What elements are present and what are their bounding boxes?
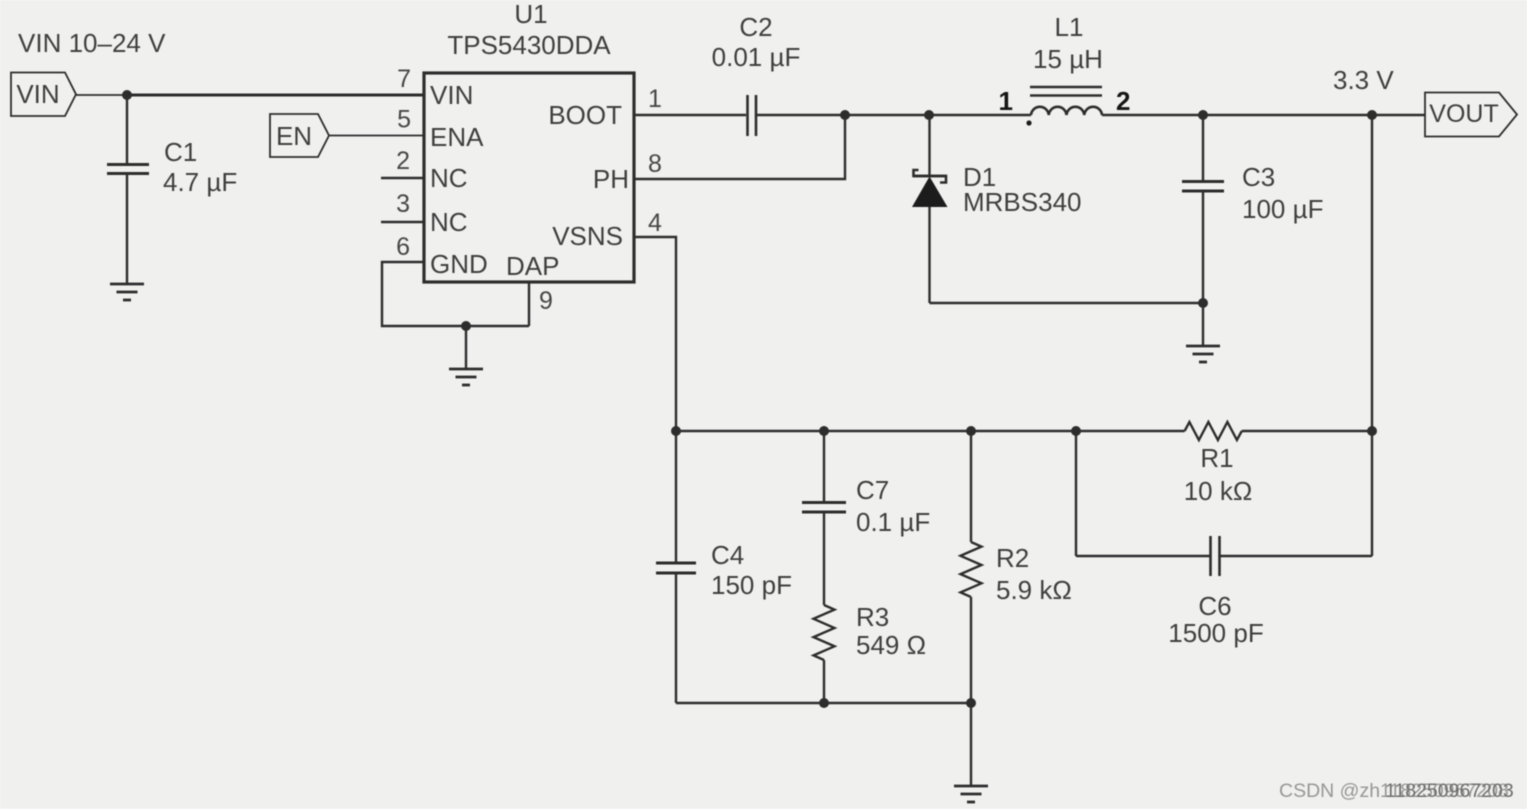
pin stub NC pin 3 <box>381 221 424 223</box>
svg-text:VIN 10–24 V: VIN 10–24 V <box>18 28 166 58</box>
wire C3 to ground <box>1202 303 1204 346</box>
capacitor C6 1500 pF <box>1076 431 1372 648</box>
pin stub NC pin 2 <box>381 177 424 179</box>
svg-text:C3: C3 <box>1242 162 1275 192</box>
svg-text:1: 1 <box>999 86 1013 116</box>
svg-text:C7: C7 <box>856 475 889 505</box>
watermark overlay <box>1385 780 1514 803</box>
node L1/C3 junction <box>1198 110 1208 120</box>
wire GND pin 6 loop <box>382 262 529 326</box>
node VOUT junction <box>1367 110 1377 120</box>
inductor L1 15 uH <box>999 12 1131 126</box>
wire C3 node to VOUT node <box>1203 114 1372 116</box>
svg-text:MRBS340: MRBS340 <box>963 187 1082 217</box>
ground (below U1) <box>449 369 483 385</box>
svg-text:4.7 µF: 4.7 µF <box>163 167 237 197</box>
svg-text:C6: C6 <box>1198 591 1231 621</box>
node PH/D1 junction <box>924 110 934 120</box>
svg-text:L1: L1 <box>1055 12 1084 42</box>
svg-text:VIN: VIN <box>430 80 473 110</box>
resistor R1 10 kOhm <box>1184 422 1253 506</box>
IC U1 TPS5430DDA <box>424 0 634 282</box>
node C3 bottom junction <box>1198 298 1208 308</box>
node GND/DAP junction <box>461 321 471 331</box>
svg-text:5: 5 <box>397 106 411 134</box>
wire bottom feedback bus <box>676 702 971 704</box>
svg-text:GND: GND <box>430 249 488 279</box>
wire EN to pin 5 <box>329 135 424 137</box>
svg-text:PH: PH <box>593 164 629 194</box>
diode D1 MRBS340 <box>912 115 1082 303</box>
svg-text:3.3 V: 3.3 V <box>1333 65 1394 95</box>
svg-text:150 pF: 150 pF <box>711 570 792 600</box>
node bus/feedback junction <box>1367 426 1377 436</box>
capacitor C3 <box>1182 115 1323 303</box>
wire L1 to C3 node <box>1102 114 1203 116</box>
svg-text:2: 2 <box>1116 86 1130 116</box>
svg-text:BOOT: BOOT <box>548 100 622 130</box>
svg-text:3: 3 <box>396 190 410 218</box>
svg-text:VOUT: VOUT <box>1429 100 1498 128</box>
svg-text:R1: R1 <box>1200 443 1233 473</box>
wire C2 to node <box>757 114 845 116</box>
node bus/C6 left junction <box>1071 426 1081 436</box>
svg-text:7: 7 <box>397 65 411 93</box>
svg-text:0.1 µF: 0.1 µF <box>856 507 930 537</box>
svg-text:TPS5430DDA: TPS5430DDA <box>447 30 611 60</box>
watermark CSDN <box>1279 780 1509 803</box>
svg-text:1500 pF: 1500 pF <box>1168 618 1263 648</box>
svg-text:6: 6 <box>396 233 410 261</box>
node bus/C4 junction <box>671 426 681 436</box>
svg-text:15 µH: 15 µH <box>1033 44 1103 74</box>
svg-text:8: 8 <box>648 150 662 178</box>
wire top bus right of R1 <box>1242 430 1372 432</box>
wire VSNS pin 4 <box>634 237 676 431</box>
wire D1 anode to C3 bottom <box>930 302 1204 304</box>
resistor R3 549 Ohm <box>814 602 927 703</box>
resistor R2 5.9 kOhm <box>961 431 1072 703</box>
svg-text:C4: C4 <box>711 540 744 570</box>
svg-text:5.9 kΩ: 5.9 kΩ <box>996 575 1072 605</box>
port VOUT <box>1425 93 1517 137</box>
svg-text:EN: EN <box>276 121 312 151</box>
svg-text:C2: C2 <box>739 12 772 42</box>
wire R2 node to ground <box>970 703 972 786</box>
wire feedback top bus <box>676 430 1185 432</box>
svg-text:9: 9 <box>539 287 553 315</box>
node BOOT/PH junction <box>840 110 850 120</box>
svg-text:10 kΩ: 10 kΩ <box>1184 476 1253 506</box>
wire VIN tag to junction <box>76 94 127 96</box>
svg-text:U1: U1 <box>514 0 547 29</box>
wire junction to ground <box>465 326 467 369</box>
wire node to VOUT tag <box>1372 114 1425 116</box>
svg-text:C1: C1 <box>164 137 197 167</box>
node bottom bus/R2 junction <box>966 698 976 708</box>
node bus/C7 junction <box>819 426 829 436</box>
svg-text:2: 2 <box>396 147 410 175</box>
svg-text:NC: NC <box>430 163 468 193</box>
capacitor C4 150 pF <box>656 431 792 703</box>
svg-text:R3: R3 <box>856 602 889 632</box>
svg-text:VIN: VIN <box>16 79 59 109</box>
capacitor C1 <box>107 95 237 284</box>
ground (bottom) <box>954 786 988 802</box>
node bottom bus/R3 junction <box>819 698 829 708</box>
port VIN <box>11 73 76 117</box>
svg-text:NC: NC <box>430 207 468 237</box>
wire feedback riser from VOUT node <box>1371 115 1373 431</box>
svg-text:0.01 µF: 0.01 µF <box>712 42 801 72</box>
ground (below C1) <box>110 284 144 300</box>
port EN <box>270 114 329 157</box>
node bus/R2 junction <box>966 426 976 436</box>
svg-text:100 µF: 100 µF <box>1242 194 1323 224</box>
svg-text:VSNS: VSNS <box>552 221 623 251</box>
svg-text:R2: R2 <box>996 543 1029 573</box>
wire node to L1 <box>929 114 1031 116</box>
svg-text:ENA: ENA <box>430 122 484 152</box>
ground (below C3) <box>1186 346 1220 362</box>
capacitor C2 <box>712 12 801 136</box>
svg-text:DAP: DAP <box>506 251 559 281</box>
wire BOOT pin 1 to C2 <box>634 114 746 116</box>
wire node to node D1 <box>845 114 929 116</box>
wire VIN to U1 pin 7 <box>124 94 424 97</box>
svg-text:4: 4 <box>648 209 662 237</box>
wire DAP stub pin 9 <box>528 282 530 326</box>
node VIN junction <box>122 90 132 100</box>
capacitor C7 0.1 uF <box>802 431 930 605</box>
svg-text:549 Ω: 549 Ω <box>856 630 926 660</box>
svg-text:1: 1 <box>648 85 662 113</box>
wire PH pin 8 riser <box>634 115 845 179</box>
